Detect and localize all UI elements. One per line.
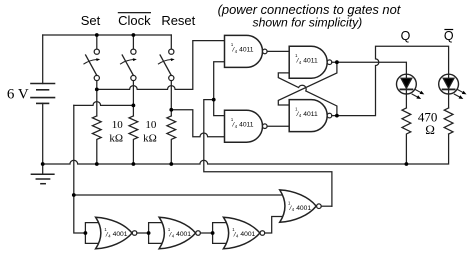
wire: battery top lead: [42, 35, 44, 84]
node: Reset line junction: [169, 108, 173, 112]
wire: top positive rail from battery to Reset switch: [43, 34, 172, 36]
wire: ground rail with hops at clock feed and enable drop: [43, 134, 449, 164]
svg-text:6 V: 6 V: [7, 86, 29, 102]
node: battery to ground rail junction: [41, 162, 45, 166]
svg-text:4011: 4011: [239, 121, 254, 128]
node: R4 ground junction: [405, 162, 409, 166]
resistor R1 10k: [92, 116, 101, 164]
svg-text:4001: 4001: [113, 231, 128, 238]
node: R2 ground junction: [132, 162, 136, 166]
svg-text:4011: 4011: [303, 57, 318, 64]
wire: clock feed down to NOR chain input: [74, 105, 86, 233]
NOR gate U2d 4001 pulse detector: [280, 190, 322, 222]
node: clock feed junction: [72, 193, 76, 197]
label: U2c 1/4 4001: [232, 227, 255, 239]
label: U2a 1/4 4001: [104, 227, 127, 239]
node: enable line junction: [212, 98, 216, 102]
node: Q output junction: [335, 60, 339, 64]
svg-text:Ω: Ω: [425, 122, 435, 137]
switch Clock: [121, 35, 137, 116]
wire: U1b output to U1d bottom input: [267, 125, 289, 127]
label: U1b 1/4 4011: [231, 117, 254, 129]
wire: LED2 cathode lead: [448, 94, 450, 108]
NAND gate U1a 4011: [225, 35, 268, 67]
wire: U2a output to U2b fork: [137, 232, 149, 234]
wire: latch cross-couple from U1d output to U1c bottom input with hop: [278, 73, 337, 116]
wire: NOR U2b input fork: [149, 223, 164, 244]
svg-text:kΩ: kΩ: [109, 133, 123, 145]
label: U2d 1/4 4001: [288, 201, 311, 213]
svg-text:kΩ: kΩ: [143, 133, 157, 145]
LED light arrows D2: [454, 90, 466, 100]
resistor R5 470: [444, 108, 453, 134]
NAND gate U1d 4011 latch bottom: [289, 100, 332, 132]
wire: enable node down to gate U1b top input: [214, 100, 225, 116]
NAND gate U1b 4011: [225, 110, 268, 142]
ground: [31, 174, 54, 184]
svg-text:Set: Set: [81, 13, 101, 28]
wire: latch cross-couple from U1c output to U1d top input: [278, 62, 337, 105]
svg-text:10: 10: [145, 119, 157, 131]
wire: Q-bar output from U1d up and over to LED2, hops over Q wire: [332, 46, 449, 115]
NOR gate U2b 4001 inverter: [159, 217, 200, 249]
svg-text:4001: 4001: [296, 205, 311, 212]
LED D2 Q-bar indicator: [439, 74, 459, 94]
wire: NOR U2c input fork: [213, 223, 229, 244]
NOR gate U2c 4001 inverter: [223, 217, 264, 249]
node: R3 ground junction: [169, 162, 173, 166]
svg-text:10: 10: [112, 119, 124, 131]
svg-text:Q: Q: [444, 29, 454, 43]
NOR gate U2a 4001 inverter: [96, 217, 137, 249]
wire: clock direct line to NOR U2d top input: [74, 194, 284, 196]
wire: battery bottom lead: [42, 103, 44, 164]
switch Reset: [158, 35, 174, 116]
wire: NOR U2a input fork: [85, 223, 101, 244]
wire: Q output from U1c to LED1: [332, 62, 407, 74]
LED D1 Q indicator: [397, 74, 417, 94]
resistor R3: [167, 116, 176, 164]
node: U2b input fork junction: [147, 231, 151, 235]
wire: enable node to pulse detector output: [204, 100, 332, 207]
wire: enable node up to gate U1a bottom input: [214, 62, 225, 100]
svg-text:4001: 4001: [240, 231, 255, 238]
node: Clock line junction: [132, 104, 136, 108]
label: U2b 1/4 4001: [168, 227, 191, 239]
svg-text:shown for simplicity): shown for simplicity): [253, 16, 363, 30]
wire: Set line to gate U1a top input, hops over Clock and Reset columns: [97, 41, 225, 90]
NAND gate U1c 4011 latch top: [289, 46, 332, 78]
label: U1d 1/4 4011: [295, 107, 318, 119]
svg-text:4001: 4001: [176, 231, 191, 238]
label: U1c 1/4 4011: [295, 53, 318, 65]
wire: LED1 cathode lead: [405, 94, 407, 108]
node: U2c input fork junction: [211, 231, 215, 235]
resistor R4 470: [402, 108, 411, 164]
node: Set switch top rail junction: [95, 33, 99, 37]
wire: Clock line from feedback column to Clock switch, hops over Set column: [74, 102, 134, 106]
label: U1a 1/4 4011: [231, 42, 254, 54]
svg-text:Reset: Reset: [161, 13, 195, 28]
wire: Reset line to gate U1b bottom input, hops over enable drop: [171, 110, 224, 137]
svg-text:Clock: Clock: [118, 13, 151, 28]
wire: ground stem: [42, 164, 44, 174]
LED light arrows D1: [412, 90, 424, 100]
svg-text:4011: 4011: [239, 46, 254, 53]
wire: U1a output to U1c top input: [267, 50, 289, 52]
svg-text:Q: Q: [401, 29, 411, 43]
node: Q-bar output junction: [335, 114, 339, 118]
wire: U2b output to U2c fork: [200, 232, 212, 234]
node: Set line junction: [95, 88, 99, 92]
node: R1 ground junction: [95, 162, 99, 166]
battery 6V: [31, 84, 55, 104]
resistor R2 10k: [129, 116, 138, 164]
switch Set: [84, 35, 100, 116]
node: Clock switch top rail junction: [132, 33, 136, 37]
node: U2a input fork junction: [84, 231, 88, 235]
svg-text:4011: 4011: [303, 111, 318, 118]
wire: U2d output: [321, 205, 332, 207]
wire: U2c output up to U2d bottom input: [265, 217, 284, 234]
